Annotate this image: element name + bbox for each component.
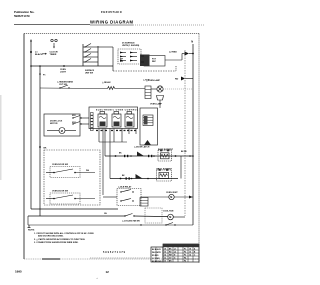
svg-text:P4: P4 bbox=[184, 257, 186, 260]
svg-text:SW2: SW2 bbox=[72, 122, 76, 124]
svg-text:TIMER: TIMER bbox=[50, 54, 57, 56]
svg-text:UNIT SW: UNIT SW bbox=[85, 73, 93, 75]
svg-text:14: 14 bbox=[164, 254, 166, 257]
svg-text:MOTOR: MOTOR bbox=[50, 123, 58, 125]
svg-text:18: 18 bbox=[189, 249, 191, 251]
svg-text:SW: SW bbox=[120, 61, 123, 63]
svg-text:M: M bbox=[61, 129, 63, 133]
svg-text:△ RELAY: △ RELAY bbox=[101, 81, 111, 84]
svg-text:OVEN VENT: OVEN VENT bbox=[166, 192, 178, 194]
svg-text:BK: BK bbox=[169, 249, 172, 251]
svg-text:BLACK: BLACK bbox=[35, 53, 43, 56]
svg-text:L1: L1 bbox=[174, 249, 176, 251]
svg-text:AND DOORS UNLOCKED.: AND DOORS UNLOCKED. bbox=[38, 235, 64, 238]
svg-text:P5: P5 bbox=[184, 261, 186, 263]
svg-text:B: B bbox=[194, 252, 196, 254]
svg-text:BK RD: BK RD bbox=[181, 151, 187, 153]
svg-text:△ OVEN LAMP: △ OVEN LAMP bbox=[145, 79, 161, 82]
svg-text:WH: WH bbox=[86, 170, 90, 172]
svg-text:BK: BK bbox=[119, 153, 122, 155]
svg-text:2. △ PARTS GROUPED ACCORDING: 2. △ PARTS GROUPED ACCORDING TO FUNCTION… bbox=[34, 238, 86, 241]
svg-text:OVEN DOOR SW: OVEN DOOR SW bbox=[52, 191, 68, 193]
svg-text:LIGHT: LIGHT bbox=[60, 71, 67, 73]
svg-text:P3: P3 bbox=[184, 255, 186, 257]
svg-text:BR BROWN: BR BROWN bbox=[152, 261, 162, 263]
svg-text:16: 16 bbox=[189, 252, 191, 254]
svg-text:N: N bbox=[191, 41, 193, 44]
svg-text:RD: RD bbox=[175, 79, 179, 81]
svg-text:BK: BK bbox=[122, 175, 125, 177]
svg-text:N: N bbox=[174, 255, 176, 257]
svg-text:FEF357HCC: FEF357HCC bbox=[101, 10, 123, 14]
svg-text:REC: REC bbox=[152, 61, 157, 63]
svg-text:16: 16 bbox=[164, 252, 166, 254]
svg-text:- ›: - › bbox=[96, 278, 98, 280]
svg-text:P1: P1 bbox=[184, 249, 186, 251]
svg-text:COOL FAN: COOL FAN bbox=[163, 210, 174, 213]
svg-text:WIRING DIAGRAM: WIRING DIAGRAM bbox=[90, 20, 134, 25]
svg-text:P1: P1 bbox=[43, 75, 46, 77]
svg-text:5995271479: 5995271479 bbox=[14, 14, 30, 18]
svg-text:OVEN DOOR SW: OVEN DOOR SW bbox=[52, 164, 68, 166]
svg-text:M: M bbox=[170, 196, 172, 199]
svg-text:UNITS (1 SHOWN): UNITS (1 SHOWN) bbox=[122, 45, 140, 47]
svg-text:3. CONNECTORS SHOWN FROM WIR: 3. CONNECTORS SHOWN FROM WIRE SIDE. bbox=[34, 242, 79, 244]
svg-text:NOTE:: NOTE: bbox=[28, 230, 35, 232]
svg-text:WH WHITE: WH WHITE bbox=[152, 252, 162, 254]
svg-text:C: C bbox=[194, 255, 196, 257]
svg-text:OVEN LAMP: OVEN LAMP bbox=[150, 103, 163, 106]
svg-text:18: 18 bbox=[164, 249, 166, 251]
svg-text:BK: BK bbox=[44, 148, 47, 150]
svg-text:10: 10 bbox=[164, 261, 166, 263]
svg-text:RD RED: RD RED bbox=[152, 255, 159, 257]
svg-text:GN: GN bbox=[104, 213, 107, 215]
svg-text:12: 12 bbox=[106, 270, 110, 274]
svg-text:14: 14 bbox=[189, 254, 191, 257]
svg-text:△ DOOR LATCH: △ DOOR LATCH bbox=[133, 146, 150, 149]
svg-text:M: M bbox=[169, 216, 171, 219]
svg-text:RD: RD bbox=[169, 252, 172, 254]
svg-text:1. CIRCUIT SHOWN WITH ALL CO: 1. CIRCUIT SHOWN WITH ALL CONTROLS OFF I… bbox=[34, 232, 94, 235]
svg-text:L2: L2 bbox=[174, 252, 176, 254]
svg-text:△ DLB RELAY: △ DLB RELAY bbox=[117, 186, 132, 189]
svg-text:WH: WH bbox=[169, 255, 173, 257]
svg-text:△ COOLING FAN SW: △ COOLING FAN SW bbox=[121, 220, 140, 223]
svg-text:5995271479: 5995271479 bbox=[103, 251, 126, 254]
svg-text:P2: P2 bbox=[184, 252, 186, 254]
svg-text:BK BLACK: BK BLACK bbox=[152, 248, 162, 251]
svg-text:SW1: SW1 bbox=[72, 115, 76, 117]
svg-text:1995: 1995 bbox=[15, 270, 22, 274]
svg-text:L2 RED: L2 RED bbox=[169, 52, 177, 54]
svg-text:GY GRAY: GY GRAY bbox=[152, 257, 160, 260]
svg-text:12: 12 bbox=[164, 258, 166, 260]
